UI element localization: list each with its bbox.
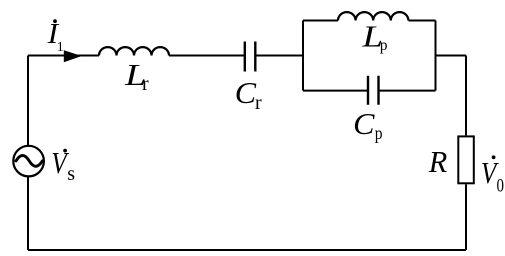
svg-text:R: R (428, 144, 448, 179)
svg-text:s: s (67, 163, 75, 185)
svg-text:p: p (380, 37, 388, 54)
svg-text:C: C (353, 106, 375, 141)
svg-text:1: 1 (57, 40, 64, 55)
svg-text:0: 0 (497, 176, 505, 197)
svg-text:C: C (235, 75, 257, 110)
svg-text:r: r (255, 92, 262, 114)
svg-text:r: r (142, 73, 149, 95)
svg-text:p: p (375, 123, 383, 143)
